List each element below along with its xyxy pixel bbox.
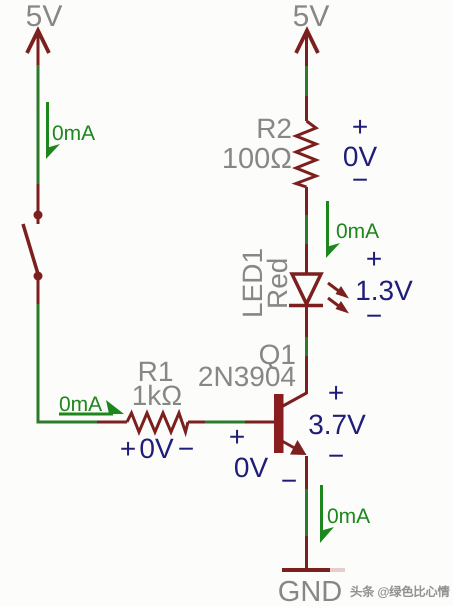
svg-text:头条 @绿色比心情: 头条 @绿色比心情 bbox=[350, 585, 450, 599]
svg-text:−: − bbox=[328, 440, 344, 471]
svg-text:−: − bbox=[178, 433, 194, 464]
svg-text:0mA: 0mA bbox=[327, 505, 370, 528]
svg-text:0mA: 0mA bbox=[336, 220, 379, 243]
svg-text:1.3V: 1.3V bbox=[355, 275, 413, 306]
svg-text:3.7V: 3.7V bbox=[308, 409, 366, 440]
svg-text:+: + bbox=[366, 243, 382, 274]
svg-text:0V: 0V bbox=[234, 452, 269, 483]
svg-text:1kΩ: 1kΩ bbox=[132, 380, 183, 411]
svg-text:GND: GND bbox=[278, 576, 342, 606]
svg-text:−: − bbox=[366, 300, 382, 331]
svg-text:2N3904: 2N3904 bbox=[198, 361, 296, 392]
svg-text:100Ω: 100Ω bbox=[222, 143, 292, 175]
svg-text:−: − bbox=[281, 465, 297, 496]
svg-text:5V: 5V bbox=[26, 0, 63, 33]
svg-text:+: + bbox=[120, 433, 136, 464]
svg-text:Red: Red bbox=[262, 258, 293, 309]
svg-text:+: + bbox=[229, 421, 245, 452]
svg-text:−: − bbox=[352, 164, 368, 195]
svg-text:0mA: 0mA bbox=[59, 393, 102, 416]
svg-text:+: + bbox=[352, 111, 368, 142]
svg-text:0mA: 0mA bbox=[52, 122, 95, 145]
svg-text:+: + bbox=[328, 377, 344, 408]
svg-text:R2: R2 bbox=[256, 113, 292, 144]
svg-text:0V: 0V bbox=[139, 433, 174, 464]
svg-text:5V: 5V bbox=[293, 0, 330, 33]
